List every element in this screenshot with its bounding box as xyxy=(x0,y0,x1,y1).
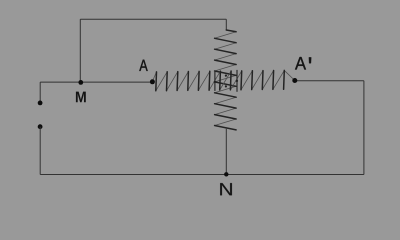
label M xyxy=(76,92,86,103)
resistor vertical coil thin diagonals xyxy=(215,32,237,126)
wire top horizontal xyxy=(80,18,226,20)
node N dot xyxy=(224,172,228,176)
wire middle-left horizontal to A xyxy=(40,81,152,83)
resistor horizontal sawtooth bold drops xyxy=(156,70,284,90)
node M dot xyxy=(78,80,83,85)
wire left terminal stub xyxy=(39,82,41,103)
node A dot xyxy=(150,79,155,84)
wire right vertical xyxy=(363,81,365,175)
wire bottom horizontal xyxy=(40,174,364,176)
wire left lower vertical xyxy=(39,127,41,175)
crossing box right side xyxy=(236,70,238,92)
wire middle-right horizontal from A' xyxy=(295,80,364,82)
node A' dot xyxy=(292,78,297,83)
terminal dot lower xyxy=(38,124,43,129)
label A xyxy=(139,60,147,71)
label A' xyxy=(295,57,311,70)
wire from vertical resistor down to N xyxy=(225,129,227,175)
junction blob lower xyxy=(225,85,227,87)
resistor vertical coil bold bars xyxy=(215,30,237,130)
crossing box left side xyxy=(214,72,216,91)
wire stub from top into vertical resistor xyxy=(225,19,227,30)
resistor horizontal sawtooth thin diagonals xyxy=(152,70,294,90)
junction blob right xyxy=(236,80,238,82)
wire left vertical from top to M xyxy=(79,19,81,82)
junction blob upper xyxy=(225,75,227,77)
junction blob left xyxy=(214,81,216,83)
terminal dot upper xyxy=(38,101,43,106)
label N xyxy=(220,183,232,195)
